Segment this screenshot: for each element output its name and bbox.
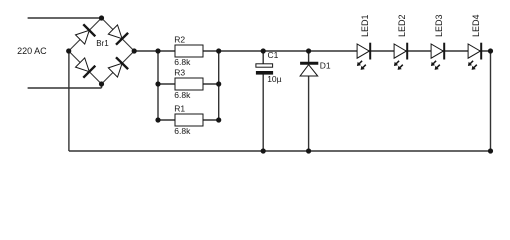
svg-text:R1: R1	[174, 103, 185, 113]
svg-text:Br1: Br1	[96, 39, 109, 48]
svg-text:R3: R3	[174, 67, 185, 77]
svg-text:R2: R2	[174, 34, 185, 44]
svg-text:LED3: LED3	[434, 14, 444, 37]
svg-text:LED2: LED2	[397, 14, 407, 37]
svg-text:D1: D1	[320, 60, 331, 70]
svg-text:6.8k: 6.8k	[174, 57, 191, 67]
svg-text:220 AC: 220 AC	[17, 46, 47, 56]
svg-text:C1: C1	[268, 50, 279, 60]
svg-text:LED4: LED4	[471, 14, 481, 37]
svg-text:10µ: 10µ	[267, 74, 281, 84]
svg-text:LED1: LED1	[360, 14, 370, 37]
svg-text:6.8k: 6.8k	[174, 126, 191, 136]
svg-text:6.8k: 6.8k	[174, 90, 191, 100]
